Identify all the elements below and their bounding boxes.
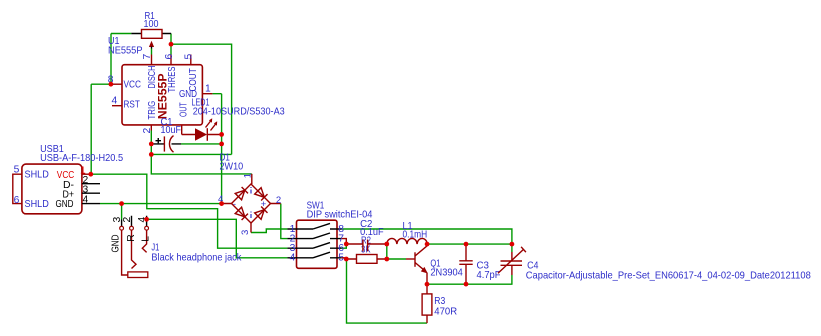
capacitor C4 adjustable <box>498 247 811 282</box>
wire Q1 base <box>387 258 406 260</box>
node SW1 pin5 junction <box>344 257 349 262</box>
svg-text:0.1uF: 0.1uF <box>360 227 384 238</box>
node R2 right junction <box>384 257 389 262</box>
U1 pin 3 OUT <box>179 102 190 135</box>
U1 pin 4 RST <box>112 96 141 111</box>
USB1 pin 2 D- <box>82 175 100 186</box>
U1 pin 1 GND <box>179 84 212 100</box>
wire pin7 DISCH link <box>151 49 153 55</box>
connector USB1 <box>22 144 123 214</box>
wire R1 left to VCC net vertical <box>91 34 131 85</box>
svg-text:2: 2 <box>122 217 133 223</box>
svg-text:204-10SURD/S530-A3: 204-10SURD/S530-A3 <box>193 107 285 118</box>
wire VCC from USB pin1 to SW1 pin3 <box>91 174 288 248</box>
wire R1 right to THRES junction <box>170 34 172 55</box>
svg-text:L: L <box>141 236 152 242</box>
svg-text:SHLD: SHLD <box>25 199 49 210</box>
svg-text:Capacitor-Adjustable_Pre-Set_E: Capacitor-Adjustable_Pre-Set_EN60617-4_0… <box>526 270 811 281</box>
wire LED cathode to bridge pin4 vertical <box>212 94 221 204</box>
node USB VCC junction <box>88 172 93 177</box>
svg-text:+: + <box>261 199 267 210</box>
svg-text:4: 4 <box>112 96 118 107</box>
wire bridge pin3 to SW1 pin1 <box>251 229 287 233</box>
svg-text:100: 100 <box>144 19 159 30</box>
node R1-THRES junction <box>169 42 174 47</box>
wire L1 right rail to C3 C4 <box>427 243 512 245</box>
svg-text:0.1mH: 0.1mH <box>403 229 428 240</box>
wire VCC vertical to USB pin1 <box>90 84 92 174</box>
svg-text:VCC: VCC <box>124 79 142 90</box>
svg-text:SHLD: SHLD <box>25 170 49 181</box>
node J1 L tap <box>144 217 149 222</box>
svg-text:470R: 470R <box>434 307 457 318</box>
svg-text:THRES: THRES <box>167 66 178 92</box>
node VCC pin8 junction <box>109 82 114 87</box>
U1 pin 6 THRES <box>164 54 178 93</box>
USB1 pin 5 SHLD bracket <box>13 165 22 206</box>
wire J1 GND drop <box>121 204 123 220</box>
U1 pin 8 VCC <box>108 75 142 91</box>
svg-text:R3: R3 <box>434 296 445 307</box>
node C3 bottom junction <box>464 282 469 287</box>
USB1 pin 1 VCC <box>80 166 91 177</box>
wire THRES junction to TRIG net long vertical <box>171 44 232 154</box>
node C2 right junction <box>384 242 389 247</box>
node C1 right junction <box>219 142 224 147</box>
U1 pin 7 DISCH <box>142 54 158 89</box>
wire SW1 pin8 to C4 top <box>342 229 512 244</box>
resistor R2 <box>346 236 387 264</box>
svg-text:4: 4 <box>290 253 296 264</box>
op-amp U1 555 timer body <box>108 36 202 125</box>
svg-text:4.7pF: 4.7pF <box>477 270 501 281</box>
resistor R1 <box>131 11 171 49</box>
wire R3 bottom return to SW1 pin5 <box>347 259 428 323</box>
diode bridge D1 <box>218 153 281 236</box>
svg-text:USB-A-F-180-H20.5: USB-A-F-180-H20.5 <box>40 153 123 164</box>
inductor L1 <box>387 221 427 244</box>
svg-text:-: - <box>233 199 236 209</box>
svg-text:1: 1 <box>242 173 253 178</box>
wire emitter bottom rail <box>427 283 512 285</box>
LED LED1 <box>182 97 285 141</box>
svg-text:10uF: 10uF <box>161 125 182 136</box>
node emitter junction <box>425 282 430 287</box>
U1 pin 2 TRIG <box>142 101 158 134</box>
node C4 top junction <box>510 242 515 247</box>
svg-text:7: 7 <box>142 54 153 60</box>
svg-text:4: 4 <box>83 195 89 206</box>
node C3 top junction <box>464 242 469 247</box>
wire SW1 pin6 up-link <box>342 244 347 248</box>
transistor Q1 <box>406 244 463 284</box>
svg-text:Black headphone jack: Black headphone jack <box>151 252 242 263</box>
svg-text:2: 2 <box>276 195 281 206</box>
svg-text:GND: GND <box>56 199 74 210</box>
node LED cathode junction <box>219 132 224 137</box>
wire C4 bottom green part <box>511 275 513 284</box>
svg-text:6: 6 <box>164 54 175 60</box>
svg-text:5: 5 <box>184 54 195 60</box>
wire C1 right green segment <box>181 143 222 145</box>
connector J1 headphone jack <box>111 216 243 278</box>
svg-text:2: 2 <box>142 128 153 134</box>
USB1 pin 3 D+ <box>82 185 100 196</box>
svg-text:TRIG: TRIG <box>147 101 158 120</box>
node C1 left junction <box>149 142 154 147</box>
switch SW1 DIP <box>287 200 372 268</box>
wire C2 right to R2 right link <box>386 244 388 259</box>
capacitor C2 <box>346 219 387 251</box>
capacitor C3 <box>459 244 500 284</box>
USB1 pin 4 GND <box>82 195 100 206</box>
node bridge pin4 junction <box>219 201 224 206</box>
node SW1 pin6-7 junction <box>344 242 349 247</box>
svg-text:NE555P: NE555P <box>108 45 143 56</box>
svg-text:OUT: OUT <box>179 102 190 117</box>
svg-text:2N3904: 2N3904 <box>430 267 463 278</box>
wire GND row USB pin4 to bridge pin4 <box>100 203 222 205</box>
svg-text:5: 5 <box>14 165 20 176</box>
node L1 right junction <box>425 242 430 247</box>
resistor R3 <box>422 284 457 323</box>
svg-text:1: 1 <box>205 84 211 95</box>
wire TRIG net verticals <box>151 131 252 174</box>
wire C4 top green part <box>511 244 513 252</box>
svg-text:RST: RST <box>124 99 141 110</box>
wire J1 L to SW1 pin4 <box>147 219 288 257</box>
capacitor C1 polarized <box>153 117 181 152</box>
node J1 GND tap <box>119 201 124 206</box>
svg-text:3: 3 <box>240 230 251 235</box>
wire bridge pin2 to SW1 pin2 <box>281 204 288 239</box>
svg-text:DISCH: DISCH <box>147 66 158 89</box>
U1 pin 5 COUT <box>184 54 200 92</box>
svg-text:6: 6 <box>14 195 20 206</box>
svg-text:2W10: 2W10 <box>220 161 244 172</box>
svg-text:GND: GND <box>111 235 122 253</box>
node TRIG corner junction <box>149 152 154 157</box>
svg-text:R: R <box>126 234 137 241</box>
